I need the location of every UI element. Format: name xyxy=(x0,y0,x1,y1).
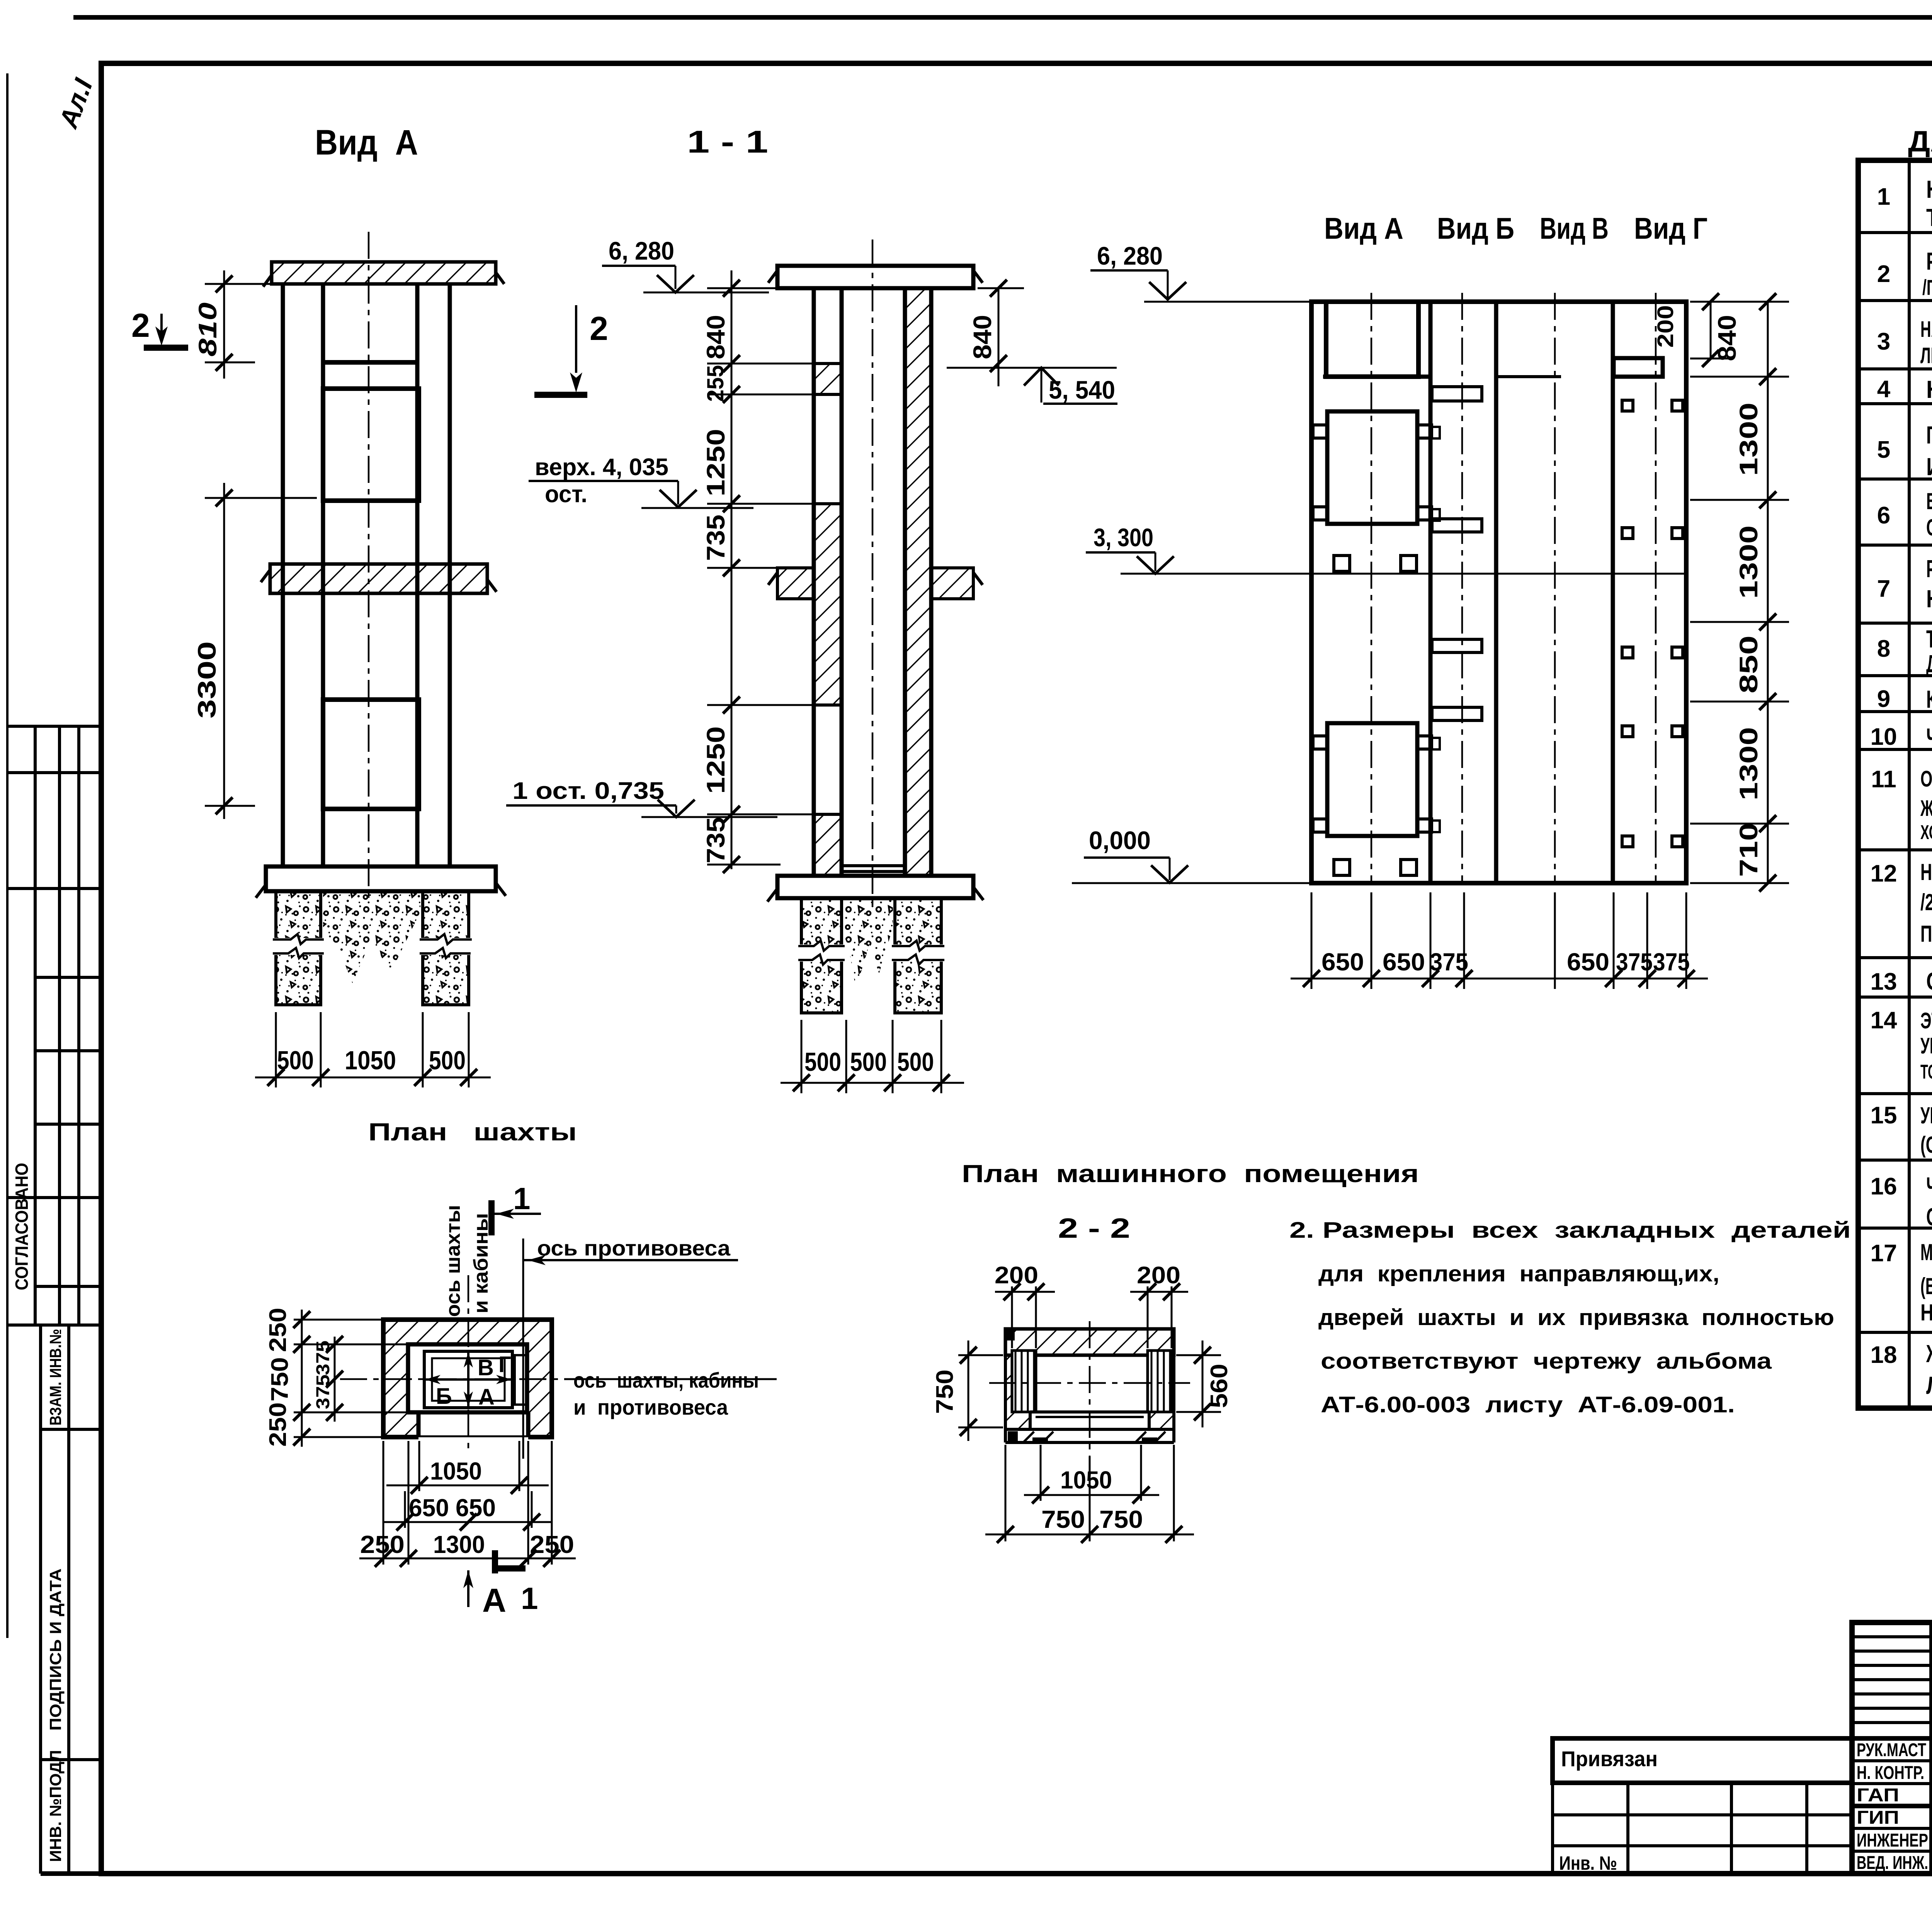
svg-text:2 - 2: 2 - 2 xyxy=(1058,1213,1130,1244)
svg-text:ост.: ост. xyxy=(545,481,587,508)
svg-text:10: 10 xyxy=(1871,724,1897,750)
svg-text:1: 1 xyxy=(1877,183,1890,210)
svg-text:А: А xyxy=(478,1385,495,1410)
svg-text:ВЫСОТА ПОДЪЕМА КАБИНЫ В М/ ВЫС: ВЫСОТА ПОДЪЕМА КАБИНЫ В М/ ВЫСОТА xyxy=(1926,488,1932,514)
svg-text:14: 14 xyxy=(1871,1007,1897,1034)
svg-text:1: 1 xyxy=(513,1181,531,1216)
svg-text:ПОДПИСЬ И ДАТА: ПОДПИСЬ И ДАТА xyxy=(46,1568,65,1731)
svg-text:ось противовеса: ось противовеса xyxy=(537,1236,731,1260)
svg-text:735: 735 xyxy=(701,817,730,863)
svg-text:ИНВ. №ПОДЛ: ИНВ. №ПОДЛ xyxy=(46,1750,65,1862)
svg-text:375: 375 xyxy=(313,1340,333,1375)
svg-text:Вид А: Вид А xyxy=(1324,211,1403,245)
svg-text:ИНЖЕНЕР: ИНЖЕНЕР xyxy=(1857,1830,1928,1851)
svg-text:дверей шахты и их привязка: дверей шахты и их привязка полностью xyxy=(1318,1305,1834,1330)
svg-text:Инв. №: Инв. № xyxy=(1559,1852,1617,1874)
svg-text:НАИМЕНОВАНИЕ, АДРЕС И: НАИМЕНОВАНИЕ, АДРЕС И xyxy=(1926,175,1932,203)
svg-text:9: 9 xyxy=(1877,686,1890,712)
svg-text:МЕСТО РАСПОЛОЖЕНИЯ ШАХТЫ ЛИ: МЕСТО РАСПОЛОЖЕНИЯ ШАХТЫ ЛИФТА xyxy=(1920,1239,1932,1265)
svg-text:Вид Б: Вид Б xyxy=(1437,211,1514,245)
svg-text:ДАННЫЕ ДЛЯ ЗАКАЗА ЛИФТА: ДАННЫЕ ДЛЯ ЗАКАЗА ЛИФТА xyxy=(1908,125,1932,158)
svg-text:ЭТАЖ, С КОТОРОГО ПРЕДУСМАТРИВ: ЭТАЖ, С КОТОРОГО ПРЕДУСМАТРИВАЕТСЯ xyxy=(1920,1008,1932,1033)
svg-text:375: 375 xyxy=(1616,948,1653,976)
svg-text:18: 18 xyxy=(1871,1342,1897,1368)
svg-text:500: 500 xyxy=(429,1046,466,1075)
svg-text:СИСТЕМА УПРАВЛЕНИЯ: СИСТЕМА УПРАВЛЕНИЯ xyxy=(1926,967,1932,995)
svg-text:ВЗАМ. ИНВ.№: ВЗАМ. ИНВ.№ xyxy=(46,1329,65,1425)
svg-text:250: 250 xyxy=(265,1308,291,1352)
svg-text:ЖЕЙ/ЭТАЖЕЙ СВЯЗАННЫХ С ВХОД: ЖЕЙ/ЭТАЖЕЙ СВЯЗАННЫХ С ВХОДОМ И ВЫ- xyxy=(1920,796,1932,821)
svg-text:6, 280: 6, 280 xyxy=(609,236,674,265)
svg-text:840: 840 xyxy=(701,315,730,359)
svg-text:ОТМЕТКИ ОСНОВНЫХ ПОСАДОЧНЫХ: ОТМЕТКИ ОСНОВНЫХ ПОСАДОЧНЫХ ЭТА- xyxy=(1920,766,1932,792)
svg-text:Б: Б xyxy=(436,1384,452,1409)
svg-text:6: 6 xyxy=(1877,502,1890,529)
svg-text:15: 15 xyxy=(1871,1102,1897,1129)
svg-text:0,000: 0,000 xyxy=(1089,826,1151,855)
svg-text:ось шахты: ось шахты xyxy=(442,1205,464,1317)
svg-text:ЧИСЛО ЗАКАЗЫВАЕМЫХ ЛИФТОВ: ЧИСЛО ЗАКАЗЫВАЕМЫХ ЛИФТОВ xyxy=(1926,1172,1932,1200)
svg-text:соответствуют чертежу альбом: соответствуют чертежу альбома xyxy=(1321,1349,1772,1374)
svg-text:ЛИВАЮТСЯ ЛИФТЫ И ИХ ПОЧТОВЫ: ЛИВАЮТСЯ ЛИФТЫ И ИХ ПОЧТОВЫЙ АДРЕС xyxy=(1920,343,1932,368)
svg-text:500: 500 xyxy=(804,1047,841,1077)
svg-text:735: 735 xyxy=(701,515,730,561)
svg-text:3: 3 xyxy=(1877,328,1890,355)
svg-text:500: 500 xyxy=(850,1047,887,1077)
svg-text:12: 12 xyxy=(1871,860,1897,887)
svg-text:НА х ВЫСОТА/ В ММ.: НА х ВЫСОТА/ В ММ. xyxy=(1926,585,1932,613)
svg-text:5, 540: 5, 540 xyxy=(1049,375,1115,404)
svg-text:Н. КОНТР.: Н. КОНТР. xyxy=(1857,1763,1924,1783)
svg-text:850: 850 xyxy=(1734,635,1763,693)
svg-text:650: 650 xyxy=(1321,948,1364,976)
svg-text:1300: 1300 xyxy=(1734,727,1763,800)
svg-text:(ВНЕ ЗДАНИЯ, ВНУТРИ ЗДАНИЯ: (ВНЕ ЗДАНИЯ, ВНУТРИ ЗДАНИЯ В ЛЕСТ- xyxy=(1920,1273,1932,1299)
svg-text:(ОДИНОЧНОЕ, ПАРНОЕ , ГРУППОВОЕ: (ОДИНОЧНОЕ, ПАРНОЕ , ГРУППОВОЕ) xyxy=(1920,1132,1932,1158)
svg-text:750: 750 xyxy=(932,1369,958,1414)
svg-text:1250: 1250 xyxy=(701,726,730,794)
svg-text:и противовеса: и противовеса xyxy=(573,1395,728,1419)
svg-text:750: 750 xyxy=(1099,1505,1143,1533)
svg-text:2: 2 xyxy=(131,307,150,344)
svg-text:УПРАВЛЕНИЕ ГРУЗОВЫМ ЛИФТОМ (: УПРАВЛЕНИЕ ГРУЗОВЫМ ЛИФТОМ (УКАЗАТЬ xyxy=(1920,1033,1932,1058)
svg-text:ГРУЗОПОДЪЕМНОСТЬ ЛИФТА В КГ: ГРУЗОПОДЪЕМНОСТЬ ЛИФТА В КГ. xyxy=(1926,421,1932,449)
svg-text:840: 840 xyxy=(1713,315,1741,361)
svg-text:500: 500 xyxy=(897,1047,934,1077)
svg-text:200: 200 xyxy=(995,1262,1038,1289)
svg-text:ЧИСЛО ОСТАНОВОК КАБИНЫ: ЧИСЛО ОСТАНОВОК КАБИНЫ xyxy=(1926,723,1932,751)
svg-text:Вид В: Вид В xyxy=(1540,211,1609,245)
svg-text:250: 250 xyxy=(360,1531,405,1558)
svg-text:375: 375 xyxy=(313,1374,333,1409)
svg-text:750: 750 xyxy=(1041,1505,1085,1533)
svg-text:1300: 1300 xyxy=(1734,403,1763,476)
svg-text:ТЕЛЕФОН ЗАКАЗЧИКА: ТЕЛЕФОН ЗАКАЗЧИКА xyxy=(1926,204,1932,231)
svg-text:1 ост. 0,735: 1 ост. 0,735 xyxy=(512,778,664,804)
svg-text:200: 200 xyxy=(1653,305,1678,348)
svg-text:А: А xyxy=(482,1582,506,1619)
svg-text:6, 280: 6, 280 xyxy=(1097,241,1163,270)
svg-text:2. Размеры всех закладных д: 2. Размеры всех закладных деталей xyxy=(1289,1218,1851,1243)
svg-text:250: 250 xyxy=(265,1402,291,1447)
svg-text:1050: 1050 xyxy=(430,1457,482,1485)
svg-text:ЖЕЛАТЕЛЬНЫЙ СРОК ПОСТАВКИ: ЖЕЛАТЕЛЬНЫЙ СРОК ПОСТАВКИ xyxy=(1926,1339,1932,1368)
svg-text:ГИП: ГИП xyxy=(1857,1808,1899,1828)
svg-text:УПРАВЛЕНИЕ ПАССАЖИРСКИМИ ЛИФ: УПРАВЛЕНИЕ ПАССАЖИРСКИМИ ЛИФТАМИ xyxy=(1920,1103,1932,1128)
svg-text:И ЕГО СКОРОСТЬ В М / С: И ЕГО СКОРОСТЬ В М / С xyxy=(1926,453,1932,481)
svg-text:/ПОЧТОВЫЕ,ТЕЛЕГРАФНЫЕ, ОТГРУЗО: /ПОЧТОВЫЕ,ТЕЛЕГРАФНЫЕ, ОТГРУЗОЧНЫЕ/ xyxy=(1922,275,1932,299)
svg-text:Вид А: Вид А xyxy=(315,123,418,162)
svg-text:План машинного помещения: План машинного помещения xyxy=(962,1160,1419,1188)
svg-text:РЕКВИЗИТЫ ГРУЗОПОЛУЧАТЕЛЯ: РЕКВИЗИТЫ ГРУЗОПОЛУЧАТЕЛЯ xyxy=(1926,247,1932,275)
svg-text:710: 710 xyxy=(1734,823,1763,877)
svg-text:500: 500 xyxy=(277,1046,314,1075)
svg-text:1300: 1300 xyxy=(433,1531,485,1558)
svg-text:НАЗНАЧЕНИЕ ЗДАНИЯ, В КОТОРОМ: НАЗНАЧЕНИЕ ЗДАНИЯ, В КОТОРОМ УСТАНАВ- xyxy=(1920,317,1932,342)
svg-text:255: 255 xyxy=(702,365,728,402)
svg-text:АТ-6.00-003 листу АТ-6.09-00: АТ-6.00-003 листу АТ-6.09-001. xyxy=(1321,1392,1735,1417)
svg-text:3300: 3300 xyxy=(192,641,221,719)
svg-text:650: 650 xyxy=(1567,948,1609,976)
svg-text:750: 750 xyxy=(267,1357,293,1402)
svg-text:1: 1 xyxy=(521,1581,538,1616)
svg-text:ОТ НИЖНЕЙ ДО ВЕРХНЕЙ ОСТАНОВ: ОТ НИЖНЕЙ ДО ВЕРХНЕЙ ОСТАНОВКИ/ xyxy=(1926,515,1932,540)
svg-text:ГАП: ГАП xyxy=(1857,1785,1899,1806)
svg-text:650: 650 xyxy=(409,1494,449,1522)
svg-text:560: 560 xyxy=(1206,1364,1233,1408)
svg-text:ось шахты, кабины: ось шахты, кабины xyxy=(573,1368,759,1392)
svg-text:8: 8 xyxy=(1877,635,1890,662)
svg-text:2: 2 xyxy=(590,310,608,347)
svg-text:375: 375 xyxy=(1653,948,1690,976)
svg-text:КОЛИЧЕСТВО ДВЕРЕЙ ШАХТЫ: КОЛИЧЕСТВО ДВЕРЕЙ ШАХТЫ xyxy=(1926,685,1932,713)
svg-text:ДВЕ ПРОТИВОПОЛОЖНЫЕ СТОРОНЫ: ДВЕ ПРОТИВОПОЛОЖНЫЕ СТОРОНЫ xyxy=(1926,650,1932,678)
svg-text:200: 200 xyxy=(1137,1262,1180,1289)
svg-text:верх. 4, 035: верх. 4, 035 xyxy=(535,454,668,481)
svg-text:ТОЛЬКО ПРИ НАРУЖНОМ КНОПОЧНОМ: ТОЛЬКО ПРИ НАРУЖНОМ КНОПОЧНОМ УПРАВЛЕНИИ… xyxy=(1920,1061,1932,1083)
svg-text:СОГЛАСОВАНО: СОГЛАСОВАНО xyxy=(12,1163,32,1290)
svg-text:1050: 1050 xyxy=(345,1046,396,1075)
svg-text:1050: 1050 xyxy=(1060,1466,1112,1494)
svg-text:650: 650 xyxy=(456,1494,496,1522)
svg-text:Г: Г xyxy=(498,1352,511,1377)
svg-text:16: 16 xyxy=(1871,1173,1897,1200)
svg-text:/220 ИЛИ 380 В/ ПРИ ЗАКАЗ: /220 ИЛИ 380 В/ ПРИ ЗАКАЗЕ НА ЭКС- xyxy=(1920,889,1932,915)
svg-text:650: 650 xyxy=(1383,948,1425,976)
svg-text:1250: 1250 xyxy=(701,429,730,496)
svg-text:7: 7 xyxy=(1877,576,1890,602)
svg-text:РАЗМЕРЫ КАБИНЫ /ШИРИНА х ГЛУ: РАЗМЕРЫ КАБИНЫ /ШИРИНА х ГЛУБИ- xyxy=(1926,555,1932,583)
svg-text:17: 17 xyxy=(1871,1240,1897,1267)
svg-text:НАПРЯЖЕНИЕ СЕТИ, ПИТАЮЩЕЙ ЛИ: НАПРЯЖЕНИЕ СЕТИ, ПИТАЮЩЕЙ ЛИФТ xyxy=(1920,859,1932,885)
svg-text:1300: 1300 xyxy=(1734,525,1763,599)
svg-text:3, 300: 3, 300 xyxy=(1094,523,1153,552)
svg-text:375: 375 xyxy=(1430,948,1468,976)
svg-text:ПОРТ УКАЗАТЬ И ЧАСТОТУ ТО: ПОРТ УКАЗАТЬ И ЧАСТОТУ ТОКА. xyxy=(1920,921,1932,947)
svg-text:13: 13 xyxy=(1871,968,1897,995)
svg-text:810: 810 xyxy=(193,302,222,357)
svg-text:ВЕД. ИНЖ.: ВЕД. ИНЖ. xyxy=(1857,1853,1928,1873)
svg-text:ОДИНАКОВОЙ ХАРАКТЕРИСТИКИ: ОДИНАКОВОЙ ХАРАКТЕРИСТИКИ xyxy=(1926,1203,1932,1231)
svg-text:РУК.МАСТ: РУК.МАСТ xyxy=(1857,1740,1926,1760)
svg-text:840: 840 xyxy=(968,315,997,359)
svg-text:1 - 1: 1 - 1 xyxy=(687,124,768,160)
svg-text:для крепления направляющ,их,: для крепления направляющ,их, xyxy=(1318,1261,1719,1286)
svg-text:План шахты: План шахты xyxy=(368,1118,577,1146)
svg-text:ЛИФТА ( ГОД, КВАРТАЛ): ЛИФТА ( ГОД, КВАРТАЛ) xyxy=(1926,1371,1932,1399)
svg-text:ХОДОМ ИЗ ЗДАНИЯ ДЛЯ ПАССАЖИР: ХОДОМ ИЗ ЗДАНИЯ ДЛЯ ПАССАЖИРСКИХ ЛИФТОВ/ xyxy=(1920,821,1932,844)
svg-text:2: 2 xyxy=(1877,261,1890,287)
svg-text:11: 11 xyxy=(1871,766,1896,793)
svg-text:В: В xyxy=(478,1355,494,1380)
svg-text:250: 250 xyxy=(530,1531,574,1558)
svg-text:и кабины: и кабины xyxy=(470,1213,492,1313)
svg-text:5: 5 xyxy=(1877,437,1890,463)
svg-text:Привязан: Привязан xyxy=(1561,1747,1658,1771)
svg-text:НАЗНАЧЕНИЕ ЛИФТА: НАЗНАЧЕНИЕ ЛИФТА xyxy=(1926,375,1932,403)
svg-text:ТРЕБУЕТСЯ ЛИ ВЫХОД ИЗ КАБИ: ТРЕБУЕТСЯ ЛИ ВЫХОД ИЗ КАБИНЫ В xyxy=(1926,625,1932,653)
svg-text:4: 4 xyxy=(1877,376,1891,403)
svg-text:НИЧНОЙ КЛЕТКЕ): НИЧНОЙ КЛЕТКЕ) xyxy=(1920,1300,1932,1325)
svg-text:Вид Г: Вид Г xyxy=(1634,211,1708,245)
